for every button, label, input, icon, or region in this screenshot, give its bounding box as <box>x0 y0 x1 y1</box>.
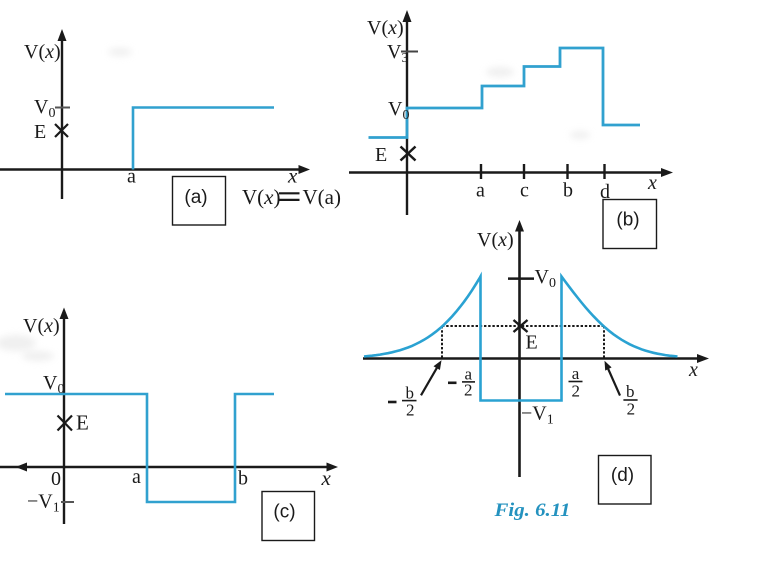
svg-text:(b): (b) <box>616 210 639 231</box>
svg-text:x: x <box>321 466 332 490</box>
svg-text:0: 0 <box>51 468 61 490</box>
svg-text:b: b <box>238 468 248 490</box>
svg-text:c: c <box>520 180 529 202</box>
svg-text:E: E <box>526 332 538 354</box>
svg-text:(d): (d) <box>611 465 634 486</box>
svg-text:2: 2 <box>627 399 636 418</box>
svg-text:x: x <box>647 172 657 194</box>
svg-text:E: E <box>34 121 46 143</box>
svg-text:V(x): V(x) <box>242 185 281 209</box>
svg-text:a: a <box>476 180 485 202</box>
svg-text:E: E <box>375 144 387 166</box>
svg-text:x: x <box>688 359 698 381</box>
svg-text:E: E <box>76 411 89 435</box>
svg-text:a: a <box>132 466 141 488</box>
svg-text:b: b <box>626 382 635 401</box>
svg-text:a: a <box>572 364 580 383</box>
svg-text:V(x): V(x) <box>367 17 404 39</box>
svg-text:2: 2 <box>572 382 581 401</box>
svg-text:2: 2 <box>464 381 473 400</box>
svg-text:V(x): V(x) <box>24 41 61 63</box>
svg-text:2: 2 <box>406 401 415 420</box>
svg-text:V(x): V(x) <box>477 229 514 251</box>
svg-text:b: b <box>405 383 414 402</box>
svg-text:Fig. 6.11: Fig. 6.11 <box>493 500 570 521</box>
svg-text:a: a <box>127 166 136 188</box>
svg-text:V(x): V(x) <box>23 315 60 337</box>
svg-text:(a): (a) <box>184 187 207 208</box>
svg-text:V(a): V(a) <box>303 185 341 209</box>
svg-text:b: b <box>563 180 573 202</box>
svg-text:x: x <box>287 164 298 188</box>
svg-text:(c): (c) <box>273 502 295 523</box>
